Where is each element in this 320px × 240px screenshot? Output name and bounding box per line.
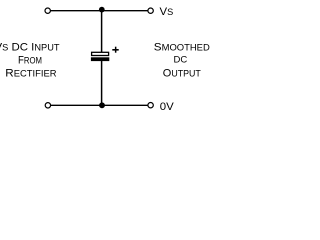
svg-text:VS: VS xyxy=(160,6,174,18)
svg-text:RECTIFIER: RECTIFIER xyxy=(5,68,57,80)
svg-text:0V: 0V xyxy=(160,101,174,113)
svg-text:DC: DC xyxy=(174,54,188,65)
svg-text:VS DC INPUT: VS DC INPUT xyxy=(0,42,60,54)
svg-text:OUTPUT: OUTPUT xyxy=(163,68,201,80)
svg-text:FROM: FROM xyxy=(18,55,42,67)
svg-text:SMOOTHED: SMOOTHED xyxy=(154,42,210,54)
